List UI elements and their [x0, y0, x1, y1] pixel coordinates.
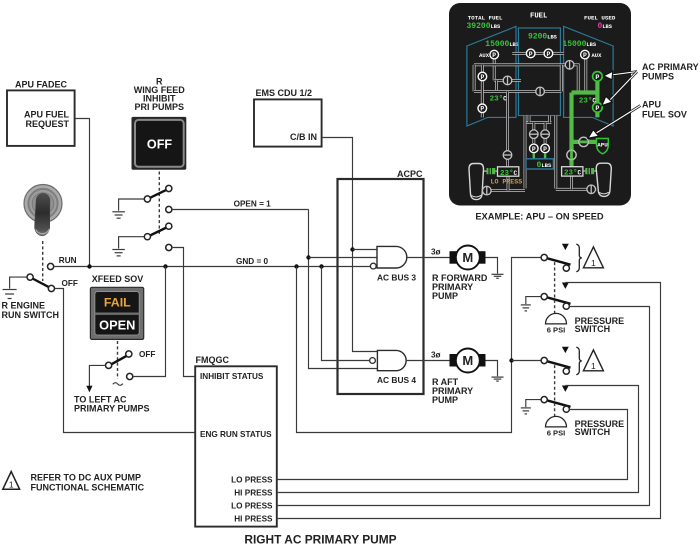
valve bottom right: [587, 185, 596, 194]
left temp box: [498, 167, 519, 176]
svg-text:PUMPS: PUMPS: [642, 72, 674, 82]
wire AC BUS 3 output: [407, 257, 450, 259]
pipe bottom manifold L: [484, 189, 525, 192]
pipe C apu feed a: [532, 123, 535, 144]
wire to left AC primary pumps: [89, 365, 105, 386]
and-gate AC BUS 3: [370, 246, 416, 282]
pump AC primary aft: [593, 103, 603, 113]
valve left: [503, 76, 512, 85]
svg-text:M: M: [462, 250, 473, 265]
svg-text:EMS CDU 1/2: EMS CDU 1/2: [256, 88, 313, 98]
wire OPEN = 1: [172, 209, 309, 211]
ground switch2: [112, 250, 125, 256]
svg-text:P: P: [492, 52, 496, 59]
arrow to left AC primary pumps: [86, 386, 92, 393]
APU symbol: [597, 139, 609, 154]
svg-text:INHIBIT STATUS: INHIBIT STATUS: [200, 372, 264, 381]
pipe L riser join: [495, 80, 498, 91]
valve center: [536, 87, 545, 96]
XFEED SOV switch: [106, 350, 156, 379]
svg-text:REQUEST: REQUEST: [25, 119, 69, 129]
svg-text:P: P: [546, 51, 550, 58]
contact ps1 upper NO: [563, 265, 569, 271]
svg-text:FUEL: FUEL: [530, 13, 547, 21]
ground M2: [492, 377, 504, 381]
hatch connector stubs: [484, 170, 597, 172]
svg-text:LO PRESS: LO PRESS: [231, 501, 273, 510]
svg-text:6 PSI: 6 PSI: [547, 428, 566, 437]
fuel display panel: [449, 3, 631, 206]
wire OPEN to AC BUS 3 input: [309, 257, 378, 259]
wire ps1 LO PRESS: [277, 307, 650, 506]
pipe bottom manifold R: [556, 188, 596, 191]
wire ps2 LO PRESS: [277, 410, 628, 480]
svg-text:P: P: [532, 146, 536, 153]
callout arrow to APU fuel sov: [588, 106, 641, 139]
wire OFF contact to FMQGC ENG RUN STATUS: [55, 289, 196, 433]
pipe R transfer drop: [560, 65, 563, 92]
junction GND to pressure switches: [294, 264, 298, 268]
actuation triangle 2a: [562, 347, 569, 353]
actuation triangle 2b: [562, 386, 569, 392]
right engine nacelle: [596, 163, 611, 196]
note triangle 1 legend: [3, 472, 20, 490]
actuation triangle 1a: [562, 244, 569, 250]
svg-text:RUN SWITCH: RUN SWITCH: [2, 310, 60, 320]
svg-text:RUN: RUN: [59, 256, 77, 265]
svg-text:C/B IN: C/B IN: [290, 132, 317, 142]
svg-text:FUEL SOV: FUEL SOV: [642, 109, 687, 119]
contact ps2 lower common: [541, 397, 547, 403]
wing feed inhibit switch 2: [112, 223, 172, 256]
motor M1 R forward primary pump: [450, 246, 486, 270]
contact xfeed common: [106, 362, 112, 368]
svg-text:P: P: [480, 106, 484, 113]
ground run switch: [3, 290, 17, 299]
pipe C run a: [512, 52, 526, 55]
wire C/B to AC BUS 3 input: [353, 249, 378, 251]
pipe L to lower pump: [481, 81, 484, 104]
ground M1: [492, 274, 504, 278]
wire ps2 HI PRESS: [277, 386, 639, 493]
valve bottom left: [483, 186, 492, 195]
svg-text:23°C: 23°C: [564, 169, 582, 178]
right fuel sov indicator: [585, 168, 594, 174]
pressure dome ps1: [546, 313, 567, 324]
pipe R box drop: [570, 175, 573, 189]
EMS CDU 1/2 box: [254, 99, 322, 146]
svg-text:OFF: OFF: [62, 279, 78, 288]
svg-text:P: P: [543, 146, 547, 153]
motor M2 R aft primary pump: [450, 349, 486, 373]
junction C/B to AC BUS 3: [350, 247, 354, 251]
svg-text:FMQGC: FMQGC: [196, 355, 230, 365]
green APU feed path: [572, 76, 598, 166]
pump AC primary fwd: [593, 72, 603, 82]
actuator link ps2: [554, 365, 556, 416]
junction XFEED branch: [163, 264, 167, 268]
junction GND to AC BUS 4: [319, 264, 323, 268]
ACPC box: [338, 179, 424, 394]
svg-text:1: 1: [591, 258, 596, 268]
left fuel sov indicator: [487, 168, 496, 174]
wire OPEN down to AC BUS 4 input: [309, 210, 378, 369]
brace 1: [576, 244, 582, 272]
contact ps2 upper common: [541, 357, 547, 363]
contact switch1 NO: [166, 206, 172, 212]
valve left downcomer: [503, 151, 512, 160]
wire riser to pressure switch 2: [512, 360, 542, 362]
svg-text:HI PRESS: HI PRESS: [234, 488, 273, 497]
wire xfeed NO to GND line: [133, 267, 166, 377]
junction OPEN to AC BUS 3: [306, 255, 310, 259]
svg-text:OPEN: OPEN: [99, 318, 135, 333]
valve right downcomer: [567, 150, 576, 159]
svg-text:XFEED SOV: XFEED SOV: [92, 274, 144, 284]
svg-text:AC BUS 4: AC BUS 4: [377, 375, 416, 385]
wire ps2 lower common to ground: [526, 400, 541, 408]
right tank outline: [564, 26, 614, 126]
pump aux left: [490, 50, 499, 59]
mechanical link OFF button to switches: [158, 172, 160, 237]
svg-text:HI PRESS: HI PRESS: [234, 514, 273, 523]
wire GND = 0 bus: [54, 266, 371, 268]
contact switch1 NC: [166, 185, 172, 191]
svg-text:P: P: [480, 74, 484, 81]
svg-text:P: P: [529, 51, 533, 58]
svg-text:6 PSI: 6 PSI: [547, 325, 566, 334]
pipe C apu header: [527, 121, 552, 124]
wire run switch common to ground: [10, 277, 27, 289]
pipe aux L stub: [493, 59, 496, 80]
junction APU request / GND line: [87, 264, 91, 268]
pump center 1: [526, 49, 535, 58]
left tank outline: [467, 26, 516, 126]
svg-text:APU FADEC: APU FADEC: [15, 80, 68, 90]
mechanical link XFEED SOV to switch: [117, 341, 119, 379]
mechanical link toggle to run switch: [42, 241, 44, 281]
wire ps1 lower common to ground: [526, 297, 541, 305]
APU FADEC box: [7, 90, 75, 145]
contact common: [27, 274, 33, 280]
pipe C run c: [553, 52, 564, 55]
and-gate AC BUS 4: [370, 350, 417, 384]
valve right: [565, 61, 574, 70]
note triangle 1 ref ps1: [583, 247, 603, 268]
svg-text:0LBS: 0LBS: [537, 161, 553, 170]
pipe C right downcomer: [554, 116, 557, 189]
contact ps1 upper common: [541, 254, 547, 260]
check valve apu b: [541, 130, 550, 139]
contact switch2 NO: [166, 244, 172, 250]
svg-text:P: P: [595, 74, 599, 81]
svg-text:RIGHT AC PRIMARY PUMP: RIGHT AC PRIMARY PUMP: [244, 533, 396, 547]
svg-text:LO PRESS: LO PRESS: [491, 179, 523, 186]
wing feed inhibit switch 1: [112, 185, 172, 218]
ground switch1: [112, 212, 125, 218]
contact ps1 lower common: [541, 294, 547, 300]
pipe transfer run: [474, 90, 561, 93]
svg-text:0LBS: 0LBS: [598, 22, 613, 31]
svg-text:PRIMARY PUMPS: PRIMARY PUMPS: [74, 404, 150, 414]
svg-text:FUEL USED: FUEL USED: [584, 15, 616, 22]
wire switch2 common to ground: [119, 237, 145, 249]
svg-text:SWITCH: SWITCH: [575, 324, 611, 334]
ground ps2: [521, 408, 531, 414]
wire GND to AC BUS 4 input: [322, 267, 370, 361]
pipe L downcomer: [506, 91, 509, 166]
svg-text:39200LBS: 39200LBS: [467, 22, 501, 31]
pipe aux R stub: [584, 59, 587, 91]
svg-text:FUNCTIONAL SCHEMATIC: FUNCTIONAL SCHEMATIC: [31, 483, 145, 493]
svg-text:OFF: OFF: [147, 138, 172, 152]
pipe main crossfeed: [474, 63, 567, 66]
pipe C apu riser b: [548, 116, 551, 123]
left engine nacelle: [469, 164, 484, 200]
pump apu feed a: [530, 144, 539, 153]
svg-text:3ø: 3ø: [431, 248, 441, 257]
pipe L valve run: [494, 79, 521, 82]
contact switch2 NC: [166, 223, 172, 229]
pressure switch 2: [521, 347, 624, 438]
pipe C run b: [535, 52, 544, 55]
center tank outline: [518, 28, 560, 116]
center lbs box: [526, 159, 553, 169]
pump apu feed b: [541, 144, 550, 153]
wire C/B IN to gates: [322, 138, 378, 352]
pipe L box drop: [507, 176, 510, 190]
svg-text:PUMP: PUMP: [432, 395, 458, 405]
pressure dome ps2: [546, 416, 567, 427]
svg-text:FAIL: FAIL: [104, 296, 131, 310]
svg-text:3ø: 3ø: [431, 350, 441, 359]
junction riser / pressure switch 2: [509, 358, 513, 362]
pipe C left downcomer: [524, 116, 527, 189]
R engine run switch: [2, 256, 78, 320]
pipe L pump to bottom: [481, 113, 484, 118]
contact OFF: [48, 285, 54, 291]
svg-text:15000LBS: 15000LBS: [562, 40, 596, 49]
svg-text:APU: APU: [642, 100, 661, 110]
svg-text:OFF: OFF: [139, 350, 155, 359]
pipe L pump stub up: [481, 65, 484, 72]
pipe R valve drop: [574, 65, 578, 91]
svg-text:SWITCH: SWITCH: [575, 427, 611, 437]
wire AC BUS 4 output: [406, 360, 449, 362]
FMQGC box: [195, 366, 277, 526]
pipe C apu feed b: [544, 123, 547, 144]
svg-text:PUMP: PUMP: [432, 291, 458, 301]
svg-text:P: P: [583, 52, 587, 59]
svg-text:OPEN = 1: OPEN = 1: [234, 199, 272, 208]
contact switch1 common: [144, 196, 150, 202]
svg-text:1: 1: [591, 361, 596, 371]
svg-text:9200LBS: 9200LBS: [528, 32, 558, 41]
svg-text:23°C: 23°C: [490, 95, 508, 104]
svg-text:AC BUS 3: AC BUS 3: [377, 272, 416, 282]
brace 2: [576, 347, 582, 375]
contact xfeed OFF: [126, 351, 132, 357]
svg-text:1: 1: [9, 480, 14, 490]
pump aux right: [581, 50, 590, 59]
wire M1 to ground: [486, 258, 498, 274]
pipe C apu riser a: [528, 116, 531, 123]
actuator link ps1: [554, 262, 556, 313]
wire to FMQGC INHIBIT STATUS: [172, 248, 195, 377]
svg-text:TOTAL FUEL: TOTAL FUEL: [468, 15, 503, 22]
callout arrow to aft AC pump: [602, 72, 637, 106]
svg-text:ACPC: ACPC: [397, 169, 423, 179]
pump left aft: [478, 104, 487, 113]
squiggle cable end: [113, 383, 123, 386]
svg-text:P: P: [595, 105, 599, 112]
valve apu sov (on green): [579, 137, 588, 146]
svg-text:GND = 0: GND = 0: [236, 257, 269, 266]
callout arrow to fwd AC pump: [604, 71, 638, 80]
wire APU fuel request to GND line: [75, 119, 90, 265]
wire M2 to ground: [486, 361, 498, 377]
ground ps1: [521, 305, 531, 311]
green flow bars apu pumps: [533, 153, 535, 158]
svg-text:EXAMPLE: APU – ON SPEED: EXAMPLE: APU – ON SPEED: [475, 212, 604, 222]
svg-text:AUX: AUX: [592, 52, 603, 59]
svg-text:AC PRIMARY: AC PRIMARY: [642, 62, 699, 72]
wire switch1 common to ground: [119, 199, 145, 211]
check valve apu a: [530, 130, 539, 139]
svg-text:AUX: AUX: [479, 52, 490, 59]
contact switch2 common: [144, 234, 150, 240]
wire ps1 HI PRESS: [277, 283, 661, 519]
svg-text:PRI PUMPS: PRI PUMPS: [135, 102, 185, 112]
svg-text:APU: APU: [597, 141, 608, 148]
svg-text:23°C: 23°C: [500, 169, 518, 178]
svg-text:REFER TO DC AUX PUMP: REFER TO DC AUX PUMP: [31, 472, 142, 482]
contact ps2 lower NO: [563, 406, 569, 412]
pressure switch 1: [521, 244, 624, 335]
pump left fwd: [478, 72, 487, 81]
contact RUN: [48, 263, 54, 269]
pump center 2: [544, 49, 553, 58]
contact ps1 lower NO: [563, 303, 569, 309]
wire GND riser to pressure switch 1: [297, 258, 542, 433]
contact ps2 upper NO: [563, 368, 569, 374]
svg-text:ENG RUN STATUS: ENG RUN STATUS: [200, 430, 272, 439]
svg-text:15000LBS: 15000LBS: [485, 40, 519, 49]
note triangle 1 ref ps2: [583, 350, 603, 371]
right temp box: [562, 167, 583, 176]
svg-text:M: M: [462, 353, 473, 368]
pipe L crossfeed drop: [473, 65, 476, 92]
contact xfeed NO: [127, 373, 133, 379]
svg-text:LO PRESS: LO PRESS: [231, 475, 273, 484]
actuation triangle 1b: [562, 283, 569, 289]
